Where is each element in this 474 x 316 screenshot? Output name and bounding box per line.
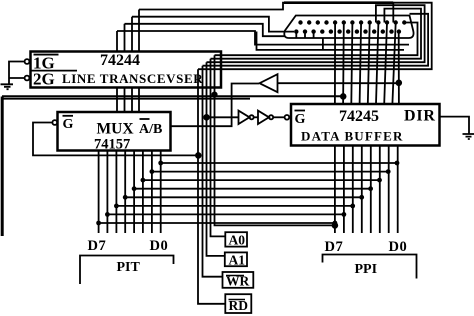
bus tie horizontal 4 bbox=[134, 188, 371, 190]
bubble 74245 G bbox=[285, 115, 290, 120]
A0 box bbox=[225, 232, 247, 246]
svg-text:A/B: A/B bbox=[139, 122, 162, 137]
wire 74244 top stub 4 bbox=[138, 10, 140, 52]
svg-text:D0: D0 bbox=[150, 238, 169, 254]
inverter U4 triangle pointing left bbox=[260, 74, 278, 92]
bus tie horizontal 5 bbox=[125, 196, 362, 198]
bus tie horizontal 6 bbox=[116, 205, 352, 207]
svg-text:G: G bbox=[63, 117, 74, 132]
wire long control line y96 bbox=[2, 95, 343, 97]
bus tie horizontal 7 bbox=[107, 213, 344, 215]
junction inverter input on data line bbox=[396, 80, 401, 85]
bubble 2G bbox=[25, 76, 30, 81]
wire control horizontal 2 wrap W2 bbox=[211, 9, 422, 59]
FIT bus vertical D2 bbox=[142, 151, 144, 234]
wire 74244 bottom to MUX stub 1 bbox=[116, 88, 118, 113]
bubble 1G bbox=[25, 59, 30, 64]
svg-text:A1: A1 bbox=[229, 253, 246, 268]
IC 74157 MUX box U2 bbox=[58, 112, 171, 151]
wire control horizontal 4 wrap W4 to pin11 bbox=[203, 14, 429, 66]
bubble U6 bbox=[269, 115, 273, 119]
A1 box bbox=[225, 252, 247, 266]
FIT bus vertical D4 bbox=[124, 151, 126, 234]
wire stub connector bottom edge to run bbox=[322, 38, 324, 50]
bus tie horizontal 3 bbox=[143, 179, 380, 181]
FIT bus vertical D1 bbox=[151, 151, 153, 234]
svg-text:G: G bbox=[295, 112, 306, 127]
wire cluster vertical A0 bbox=[211, 59, 226, 237]
wire MUX A/B select from inverter bbox=[171, 84, 260, 127]
svg-text:LINE TRANSCEVSER: LINE TRANSCEVSER bbox=[62, 71, 203, 86]
bus tie horizontal 8 bbox=[99, 222, 335, 224]
svg-text:A0: A0 bbox=[229, 233, 246, 248]
bubble MUX G bbox=[52, 120, 57, 125]
wire long control line y98 left part bbox=[2, 98, 250, 100]
wire between inverters bbox=[254, 116, 258, 118]
bus tie horizontal 1 bbox=[161, 162, 397, 164]
data line 6 bbox=[376, 23, 380, 234]
ground GND2 bbox=[463, 134, 474, 139]
wire control horizontal 3 wrap W3 to pin10 bbox=[207, 5, 425, 62]
wire elbow line 2 to connector bottom pin 1 bbox=[132, 17, 294, 32]
svg-text:74245: 74245 bbox=[339, 108, 379, 125]
svg-text:DIR: DIR bbox=[404, 108, 436, 125]
data line pin5 to 74245 to PPI D7 bbox=[334, 23, 336, 234]
svg-text:PIT: PIT bbox=[117, 260, 141, 275]
ground GND1 bbox=[1, 84, 14, 89]
junction dots PPI staircase bbox=[333, 161, 400, 226]
wire MUX G loop bbox=[33, 123, 199, 156]
wire cluster vertical WR bbox=[203, 66, 223, 277]
data line 8 pin12 to PPI D0 bbox=[392, 23, 397, 234]
bus tie horizontal 2 bbox=[152, 171, 388, 173]
svg-text:D0: D0 bbox=[389, 239, 408, 255]
wire 74244 1G2G enable loop to ground bbox=[9, 62, 25, 85]
svg-text:2G: 2G bbox=[33, 69, 55, 88]
wire inverter chain feed junction bbox=[204, 115, 209, 120]
wire 74244 top stub 1 bbox=[116, 31, 118, 52]
connector top row pins bbox=[298, 20, 406, 24]
wire thick left edge stub bbox=[1, 97, 4, 237]
FIT bus vertical D5 bbox=[115, 151, 117, 234]
wire elbow line 1 to connector top pin 12 bbox=[139, 3, 393, 23]
WR box bbox=[223, 272, 254, 288]
wire connector bottom pin13 drop to 74245 bbox=[398, 32, 400, 104]
data line 2 bbox=[342, 23, 345, 234]
IC 74244 line transceiver box U1 bbox=[31, 52, 222, 88]
wire cluster vertical 5 to PPI D7 bbox=[215, 55, 335, 225]
PPI bracket bbox=[323, 255, 417, 279]
data line 3 bbox=[351, 23, 353, 234]
inverter U5 triangle bbox=[239, 111, 250, 124]
inverter U6 triangle bbox=[258, 111, 269, 124]
wire elbow line 3 to connector bottom left bbox=[125, 24, 286, 36]
FIT bus vertical D0 bbox=[160, 151, 162, 234]
wire cluster vertical A1 bbox=[207, 62, 225, 256]
svg-text:DATA BUFFER: DATA BUFFER bbox=[301, 129, 404, 144]
wire 74244 top stub 2 bbox=[124, 24, 126, 52]
data line 5 bbox=[368, 23, 371, 234]
svg-text:MUX: MUX bbox=[97, 121, 135, 138]
wire 74244 top stub 3 bbox=[131, 17, 133, 52]
wire 74244 bottom to MUX stub 3 bbox=[131, 88, 133, 113]
separator line 74244 bbox=[31, 70, 77, 72]
junction G loop to RD line bbox=[196, 153, 201, 158]
RD box bbox=[225, 294, 251, 313]
FIT bus vertical D7 bbox=[98, 151, 100, 234]
wire control horizontal 5 wrap W5 bbox=[198, 3, 432, 70]
wire 74244 bottom to MUX stub 4 bbox=[138, 88, 140, 113]
connector bottom row pins bbox=[294, 29, 401, 33]
data line 4 bbox=[360, 23, 362, 234]
wire to inverter chain bbox=[207, 116, 239, 118]
junction dots FIT staircase bbox=[96, 161, 163, 226]
junction cluster5 on control line bbox=[212, 92, 216, 96]
svg-text:PPI: PPI bbox=[355, 262, 378, 277]
junction control line on data line 2 bbox=[341, 94, 346, 99]
svg-text:74157: 74157 bbox=[94, 137, 130, 153]
wire elbow line 4b under-connector second run bbox=[257, 32, 405, 50]
wire cluster vertical RD bbox=[198, 69, 225, 304]
bubble U5 bbox=[250, 115, 254, 119]
connector bottom pin stubs bbox=[296, 32, 313, 38]
svg-text:D7: D7 bbox=[325, 239, 344, 255]
DB25 connector J1 outline bbox=[284, 16, 413, 39]
wire inverter input line bbox=[278, 82, 399, 84]
wire DIR to ground bbox=[440, 117, 470, 134]
svg-text:74244: 74244 bbox=[100, 52, 140, 69]
wire inverter to 74245 G bbox=[273, 116, 284, 118]
svg-text:D7: D7 bbox=[88, 238, 107, 254]
PIT bracket bbox=[80, 256, 174, 285]
wire control horizontal 1 wrap W1 to pin13 bbox=[215, 23, 418, 56]
FIT bus vertical D3 bbox=[133, 151, 135, 234]
data line 7 bbox=[384, 23, 389, 234]
IC 74245 data buffer box U3 bbox=[291, 104, 440, 146]
junction cluster5 wire on PPI D7 bbox=[333, 223, 338, 228]
wire elbow line 4 to under-connector run bbox=[117, 31, 409, 45]
FIT bus vertical D6 bbox=[106, 151, 108, 234]
wire 74244 bottom to MUX stub 2 bbox=[124, 88, 126, 113]
